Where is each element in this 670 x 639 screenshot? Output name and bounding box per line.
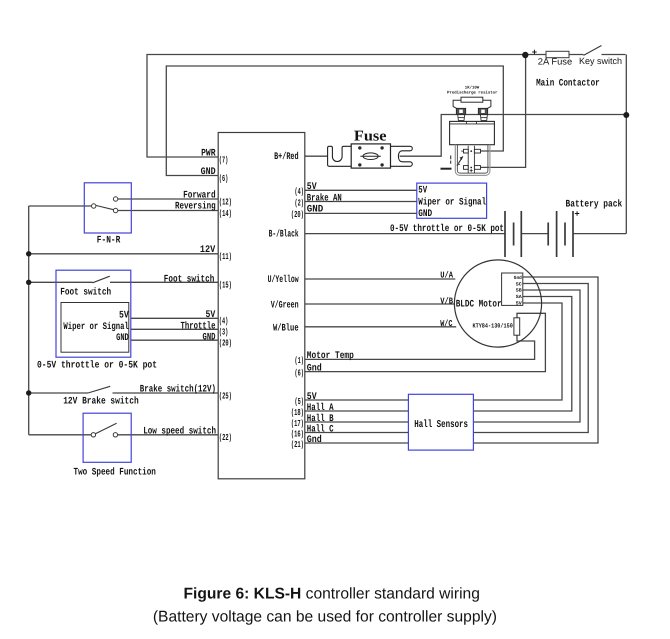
svg-text:Foot switch: Foot switch: [164, 273, 215, 285]
svg-text:SA: SA: [516, 294, 522, 300]
svg-text:KTY84-130/150: KTY84-130/150: [473, 323, 513, 330]
svg-text:(2): (2): [295, 197, 304, 208]
svg-text:(4): (4): [295, 186, 304, 197]
svg-text:B-/Black: B-/Black: [269, 229, 299, 241]
svg-text:BLDC Motor: BLDC Motor: [456, 300, 502, 311]
svg-text:(15): (15): [219, 280, 232, 291]
svg-text:GND: GND: [116, 333, 129, 344]
svg-text:GND: GND: [203, 332, 216, 343]
svg-text:Brake_AN: Brake_AN: [307, 192, 342, 204]
svg-text:(Battery voltage can be used f: (Battery voltage can be used for control…: [153, 609, 497, 626]
svg-text:F-N-R: F-N-R: [97, 235, 121, 246]
svg-text:GND: GND: [201, 167, 216, 178]
svg-text:+: +: [574, 209, 579, 219]
svg-text:+: +: [532, 48, 537, 58]
svg-text:V/B: V/B: [440, 296, 453, 306]
svg-text:Gnd: Gnd: [307, 434, 322, 446]
svg-text:Two Speed Function: Two Speed Function: [74, 466, 156, 478]
svg-text:Hall C: Hall C: [307, 423, 334, 435]
svg-text:Hall Sensors: Hall Sensors: [414, 419, 468, 431]
svg-text:Motor Temp: Motor Temp: [307, 351, 354, 362]
svg-text:W/Blue: W/Blue: [273, 323, 299, 335]
svg-text:Brake switch(12V): Brake switch(12V): [140, 384, 216, 396]
svg-text:(21): (21): [291, 439, 304, 450]
svg-text:(11): (11): [219, 251, 232, 262]
svg-text:GND: GND: [307, 204, 324, 215]
svg-text:SB: SB: [516, 288, 522, 294]
svg-text:(4): (4): [219, 316, 228, 327]
svg-text:(6): (6): [219, 173, 228, 184]
svg-text:Low speed switch: Low speed switch: [143, 425, 216, 437]
svg-text:(17): (17): [291, 418, 304, 429]
svg-text:GND: GND: [418, 209, 432, 220]
svg-text:Foot switch: Foot switch: [60, 286, 111, 298]
svg-text:0-5V throttle or 0-5K pot: 0-5V throttle or 0-5K pot: [390, 223, 504, 235]
svg-text:PWR: PWR: [201, 149, 216, 160]
svg-text:(20): (20): [219, 338, 232, 349]
svg-text:V/Green: V/Green: [271, 299, 299, 311]
svg-text:Forward: Forward: [183, 190, 216, 202]
svg-text:5V: 5V: [307, 392, 317, 403]
svg-text:(16): (16): [291, 428, 304, 439]
svg-text:12V Brake switch: 12V Brake switch: [63, 395, 139, 407]
svg-text:Throttle: Throttle: [181, 320, 216, 332]
svg-text:Reversing: Reversing: [175, 201, 216, 213]
svg-text:5V: 5V: [206, 310, 216, 321]
svg-text:(5): (5): [295, 396, 304, 407]
svg-text:Hall B: Hall B: [307, 413, 334, 425]
svg-text:(6): (6): [295, 367, 304, 378]
svg-text:Fuse: Fuse: [354, 129, 387, 145]
svg-text:(25): (25): [219, 390, 232, 401]
svg-text:Gnd: Gnd: [307, 362, 322, 374]
svg-text:0-5V throttle or 0-5K pot: 0-5V throttle or 0-5K pot: [37, 360, 157, 372]
svg-text:(12): (12): [219, 196, 232, 207]
svg-text:Main Contactor: Main Contactor: [536, 77, 600, 89]
svg-text:5V: 5V: [516, 301, 522, 307]
svg-text:Hall A: Hall A: [307, 402, 334, 414]
svg-text:(7): (7): [219, 155, 228, 166]
svg-text:(14): (14): [219, 208, 232, 219]
svg-text:Gnd: Gnd: [514, 275, 522, 281]
svg-text:Wiper or Signal: Wiper or Signal: [418, 197, 486, 209]
svg-text:2A Fuse: 2A Fuse: [538, 57, 572, 67]
svg-text:W/C: W/C: [440, 319, 453, 329]
svg-text:B+/Red: B+/Red: [274, 151, 299, 163]
svg-text:5V: 5V: [119, 310, 129, 321]
svg-text:SC: SC: [516, 281, 522, 287]
svg-text:5V: 5V: [307, 182, 317, 193]
svg-text:Figure 6: KLS-H controller sta: Figure 6: KLS-H controller standard wiri…: [184, 585, 480, 602]
svg-text:5V: 5V: [418, 186, 427, 197]
svg-text:Predischarge resistor: Predischarge resistor: [447, 90, 498, 95]
svg-text:(3): (3): [219, 327, 228, 338]
svg-text:U/Yellow: U/Yellow: [268, 274, 299, 286]
svg-text:(22): (22): [219, 432, 232, 443]
svg-text:(20): (20): [291, 209, 304, 220]
svg-text:U/A: U/A: [440, 271, 453, 281]
svg-text:Key switch: Key switch: [579, 56, 622, 66]
svg-text:(18): (18): [291, 407, 304, 418]
svg-text:12V: 12V: [200, 245, 215, 256]
svg-text:Wiper or Signal: Wiper or Signal: [63, 321, 128, 333]
svg-text:1K/10W: 1K/10W: [465, 86, 480, 91]
svg-text:(1): (1): [295, 355, 304, 366]
